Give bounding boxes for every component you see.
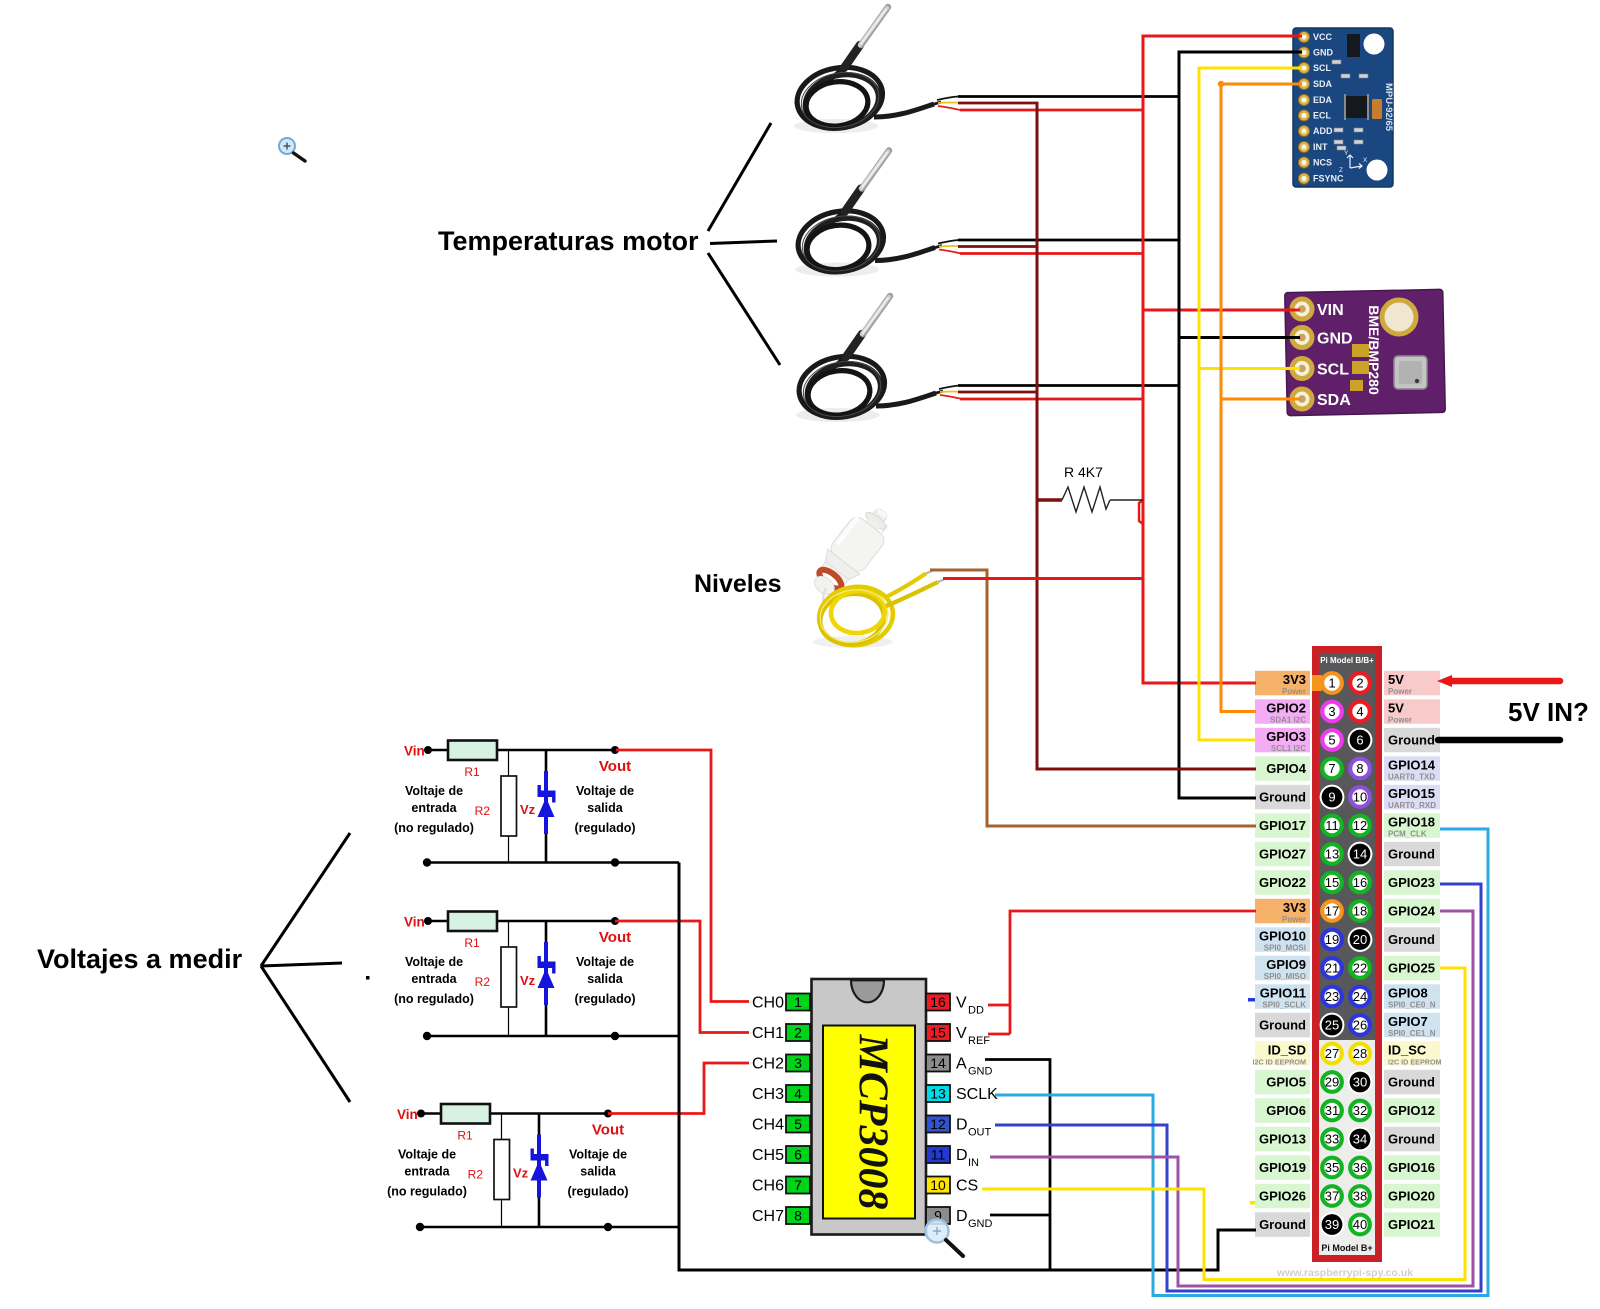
svg-text:Temperaturas motor: Temperaturas motor xyxy=(438,226,699,256)
svg-text:12: 12 xyxy=(1353,818,1367,833)
svg-text:GPIO9: GPIO9 xyxy=(1266,957,1306,972)
svg-text:GND: GND xyxy=(968,1066,993,1078)
svg-text:Voltaje de: Voltaje de xyxy=(569,1148,627,1162)
svg-text:R1: R1 xyxy=(457,1129,473,1143)
svg-text:(no regulado): (no regulado) xyxy=(394,992,474,1006)
svg-text:D: D xyxy=(956,1117,968,1134)
svg-text:salida: salida xyxy=(580,1165,616,1179)
svg-text:GPIO3: GPIO3 xyxy=(1266,729,1306,744)
svg-text:Vin: Vin xyxy=(397,1107,418,1122)
wire: brown float switch to GPIO17 xyxy=(930,570,1256,826)
svg-text:ID_SC: ID_SC xyxy=(1388,1043,1427,1058)
svg-text:Pi Model B/B+: Pi Model B/B+ xyxy=(1320,656,1374,665)
svg-text:D: D xyxy=(956,1208,968,1225)
svg-text:3V3: 3V3 xyxy=(1283,900,1306,915)
svg-text:GPIO27: GPIO27 xyxy=(1259,847,1306,862)
svg-text:R2: R2 xyxy=(475,975,491,989)
svg-text:CH6: CH6 xyxy=(752,1178,784,1195)
wire: black branch to BME GND xyxy=(1179,336,1300,339)
svg-text:CH4: CH4 xyxy=(752,1117,784,1134)
svg-text:1: 1 xyxy=(1328,676,1335,691)
svg-text:32: 32 xyxy=(1353,1103,1367,1118)
svg-text:SDA: SDA xyxy=(1313,79,1333,89)
wire: red 3V3 bus to MPU VCC and GPIO pin1 3V3 xyxy=(1143,36,1302,683)
svg-text:Ground: Ground xyxy=(1259,1217,1306,1232)
temperature probe TH1 (DS18B20) xyxy=(792,7,960,135)
svg-text:7: 7 xyxy=(794,1177,802,1193)
svg-text:Ground: Ground xyxy=(1388,932,1435,947)
svg-text:35: 35 xyxy=(1325,1160,1339,1175)
wire: probe1 data (dark red) xyxy=(958,102,1039,105)
svg-text:Ground: Ground xyxy=(1388,847,1435,862)
wire: Vout1 to MCP3008 CH0 xyxy=(616,750,749,1002)
sensor module U2 MPU-92/65 xyxy=(1293,28,1394,187)
svg-text:GPIO8: GPIO8 xyxy=(1388,986,1428,1001)
svg-text:GPIO23: GPIO23 xyxy=(1388,875,1435,890)
svg-text:2: 2 xyxy=(1356,676,1363,691)
svg-text:ECL: ECL xyxy=(1313,111,1332,121)
svg-text:salida: salida xyxy=(587,801,623,815)
svg-text:UART0_TXD: UART0_TXD xyxy=(1388,773,1435,782)
svg-text:8: 8 xyxy=(1356,761,1363,776)
svg-text:R2: R2 xyxy=(475,804,491,818)
wire: MCP3008 VDD/VREF to 3V3 (pin17) xyxy=(988,911,1256,1034)
Raspberry Pi GPIO header pinout (Pi Model B/B+) xyxy=(1252,646,1441,1279)
svg-text:3V3: 3V3 xyxy=(1283,672,1306,687)
svg-text:DD: DD xyxy=(968,1005,984,1017)
svg-text:13: 13 xyxy=(930,1086,946,1102)
voltage divider circuit 2 (Vin/R1/R2/Vz zener regulator) xyxy=(394,912,679,1041)
svg-text:(regulado): (regulado) xyxy=(567,1185,628,1199)
svg-text:REF: REF xyxy=(968,1035,990,1047)
wire: orange branch to BME SDA xyxy=(1221,398,1300,401)
svg-text:(regulado): (regulado) xyxy=(574,992,635,1006)
temperature probe TH2 (DS18B20) xyxy=(793,151,961,279)
svg-text:ID_SD: ID_SD xyxy=(1268,1043,1306,1058)
wire: red branch to BME VIN xyxy=(1143,309,1300,312)
svg-text:D: D xyxy=(956,1147,968,1164)
svg-text:GPIO25: GPIO25 xyxy=(1388,961,1435,976)
svg-text:39: 39 xyxy=(1325,1217,1339,1232)
svg-text:(no regulado): (no regulado) xyxy=(394,821,474,835)
svg-text:15: 15 xyxy=(930,1025,946,1041)
svg-text:4: 4 xyxy=(794,1086,802,1102)
svg-text:1: 1 xyxy=(794,994,802,1010)
svg-text:Ground: Ground xyxy=(1259,790,1306,805)
svg-text:29: 29 xyxy=(1325,1075,1339,1090)
svg-text:33: 33 xyxy=(1325,1132,1339,1147)
svg-text:(regulado): (regulado) xyxy=(574,821,635,835)
svg-text:X: X xyxy=(1363,157,1368,164)
svg-text:SPI0_CE0_N: SPI0_CE0_N xyxy=(1388,1001,1436,1010)
wire: supply ground return (thick black) xyxy=(1438,737,1560,744)
wire: 5V supply input (thick red) xyxy=(1448,678,1560,685)
svg-text:SCL: SCL xyxy=(1313,63,1332,73)
svg-text:5: 5 xyxy=(1328,733,1335,748)
svg-text:GPIO13: GPIO13 xyxy=(1259,1132,1306,1147)
svg-text:GPIO20: GPIO20 xyxy=(1388,1189,1435,1204)
svg-text:entrada: entrada xyxy=(411,801,457,815)
svg-text:Ground: Ground xyxy=(1259,1018,1306,1033)
zoom watermark icon (on MCP3008) xyxy=(926,1220,964,1257)
svg-text:CH3: CH3 xyxy=(752,1086,784,1103)
svg-text:Vz: Vz xyxy=(513,1166,529,1181)
svg-text:22: 22 xyxy=(1353,961,1367,976)
svg-text:Vz: Vz xyxy=(520,973,536,988)
svg-text:Vin: Vin xyxy=(404,915,425,930)
svg-text:Voltaje de: Voltaje de xyxy=(398,1148,456,1162)
pointer lines to probes xyxy=(708,123,771,231)
svg-text:5V: 5V xyxy=(1388,701,1404,716)
svg-text:salida: salida xyxy=(587,972,623,986)
svg-text:Vout: Vout xyxy=(599,929,631,946)
svg-text:GPIO2: GPIO2 xyxy=(1266,701,1306,716)
svg-text:Voltajes a medir: Voltajes a medir xyxy=(37,944,243,974)
svg-text:V: V xyxy=(956,995,967,1012)
svg-text:GPIO10: GPIO10 xyxy=(1259,929,1306,944)
svg-text:34: 34 xyxy=(1353,1132,1367,1147)
svg-text:Vout: Vout xyxy=(592,1122,624,1139)
svg-text:16: 16 xyxy=(1353,875,1367,890)
wire: MCP3008 DIN to GPIO24 (purple) xyxy=(990,911,1473,1286)
svg-text:www.raspberrypi-spy.co.uk: www.raspberrypi-spy.co.uk xyxy=(1276,1267,1413,1279)
wire: probe1 VCC (red) xyxy=(960,109,1145,112)
svg-text:CH7: CH7 xyxy=(752,1208,784,1225)
svg-text:Pi Model B+: Pi Model B+ xyxy=(1321,1243,1372,1253)
wire: MCP3008 AGND to ground rail xyxy=(985,1060,1050,1271)
wire: black GND bus to MPU GND and GPIO Ground (pin9 row) xyxy=(1179,52,1302,798)
svg-text:EDA: EDA xyxy=(1313,95,1333,105)
svg-text:3: 3 xyxy=(794,1055,802,1071)
svg-text:15: 15 xyxy=(1325,875,1339,890)
svg-text:GPIO24: GPIO24 xyxy=(1388,904,1436,919)
svg-text:36: 36 xyxy=(1353,1160,1367,1175)
svg-text:Voltaje de: Voltaje de xyxy=(576,784,634,798)
svg-text:R2: R2 xyxy=(468,1168,484,1182)
svg-text:VCC: VCC xyxy=(1313,32,1333,42)
ADC chip U1 MCP3008 xyxy=(752,979,998,1235)
wire: red float switch to 3V3 bus xyxy=(943,577,1145,580)
svg-text:GPIO26: GPIO26 xyxy=(1259,1189,1306,1204)
svg-text:GND: GND xyxy=(968,1218,993,1230)
wire: Vout3 to MCP3008 CH2 xyxy=(608,1063,749,1114)
svg-text:PCM_CLK: PCM_CLK xyxy=(1388,830,1427,839)
svg-text:GPIO16: GPIO16 xyxy=(1388,1160,1435,1175)
svg-text:25: 25 xyxy=(1325,1018,1339,1033)
svg-text:40: 40 xyxy=(1353,1217,1367,1232)
svg-text:R1: R1 xyxy=(464,936,480,950)
svg-text:17: 17 xyxy=(1325,904,1339,919)
svg-text:SPI0_CE1_N: SPI0_CE1_N xyxy=(1388,1029,1436,1038)
svg-text:MCP3008: MCP3008 xyxy=(849,1033,895,1209)
svg-text:13: 13 xyxy=(1325,847,1339,862)
svg-text:Power: Power xyxy=(1388,716,1412,725)
svg-text:SCL: SCL xyxy=(1317,362,1349,379)
svg-text:GPIO15: GPIO15 xyxy=(1388,786,1435,801)
wire: probe2 VCC (red) xyxy=(960,252,1145,255)
wire: probe2 GND (black) xyxy=(958,239,1181,242)
svg-text:Voltaje de: Voltaje de xyxy=(576,955,634,969)
svg-text:GPIO21: GPIO21 xyxy=(1388,1217,1435,1232)
svg-text:GND: GND xyxy=(1313,48,1334,58)
wire: common ground rail of divider circuits xyxy=(679,863,1256,1271)
svg-text:GPIO18: GPIO18 xyxy=(1388,815,1435,830)
svg-text:7: 7 xyxy=(1328,761,1335,776)
svg-text:16: 16 xyxy=(930,994,946,1010)
svg-text:Ground: Ground xyxy=(1388,733,1435,748)
svg-text:IN: IN xyxy=(968,1157,979,1169)
svg-text:Vin: Vin xyxy=(404,744,425,759)
svg-text:8: 8 xyxy=(794,1208,802,1224)
svg-text:SPI0_MISO: SPI0_MISO xyxy=(1264,972,1306,981)
svg-text:Z: Z xyxy=(1339,167,1343,174)
voltage divider circuit 3 (Vin/R1/R2/Vz zener regulator) xyxy=(387,1104,679,1231)
svg-text:5V IN?: 5V IN? xyxy=(1508,697,1589,727)
svg-text:CH1: CH1 xyxy=(752,1025,784,1042)
svg-text:9: 9 xyxy=(1328,790,1335,805)
svg-text:ADD: ADD xyxy=(1313,126,1333,136)
wire: probe1 GND (black) xyxy=(958,95,1181,98)
svg-text:GPIO11: GPIO11 xyxy=(1260,986,1306,1001)
svg-text:SCLK: SCLK xyxy=(956,1086,998,1103)
wire: red vertical jog artifact xyxy=(1139,500,1143,524)
svg-text:2: 2 xyxy=(794,1025,802,1041)
svg-text:V: V xyxy=(956,1025,967,1042)
svg-text:Voltaje de: Voltaje de xyxy=(405,955,463,969)
svg-text:GPIO19: GPIO19 xyxy=(1259,1160,1306,1175)
svg-text:5V: 5V xyxy=(1388,672,1404,687)
svg-text:28: 28 xyxy=(1353,1046,1367,1061)
wire: orange SDA bus to MPU SDA and GPIO2 SDA1 xyxy=(1221,84,1302,712)
svg-text:21: 21 xyxy=(1325,961,1339,976)
svg-text:GPIO12: GPIO12 xyxy=(1388,1103,1435,1118)
svg-text:11: 11 xyxy=(1325,818,1339,833)
svg-text:24: 24 xyxy=(1353,989,1367,1004)
svg-text:CH0: CH0 xyxy=(752,995,784,1012)
svg-text:26: 26 xyxy=(1353,1018,1367,1033)
svg-text:GPIO5: GPIO5 xyxy=(1266,1075,1306,1090)
svg-text:OUT: OUT xyxy=(968,1127,992,1139)
svg-text:GPIO7: GPIO7 xyxy=(1388,1014,1428,1029)
wire: MCP3008 DOUT to GPIO23 (blue) xyxy=(995,884,1481,1291)
wire: probe3 VCC (red) xyxy=(960,398,1145,401)
svg-text:CH2: CH2 xyxy=(752,1056,784,1073)
voltage divider circuit 1 (Vin/R1/R2/Vz zener regulator) xyxy=(394,741,679,867)
svg-text:I2C ID EEPROM: I2C ID EEPROM xyxy=(1252,1058,1306,1067)
wire: probe3 GND (black) xyxy=(958,384,1181,387)
svg-text:12: 12 xyxy=(930,1116,946,1132)
svg-text:6: 6 xyxy=(794,1147,802,1163)
svg-text:Power: Power xyxy=(1282,687,1306,696)
pointer lines to divider circuits xyxy=(261,833,350,966)
svg-text:BME/BMP280: BME/BMP280 xyxy=(1366,305,1382,395)
svg-text:entrada: entrada xyxy=(404,1165,450,1179)
svg-text:CS: CS xyxy=(956,1178,978,1195)
svg-text:Ground: Ground xyxy=(1388,1132,1435,1147)
svg-text:Y: Y xyxy=(1344,150,1349,157)
svg-text:SDA: SDA xyxy=(1317,392,1351,409)
svg-text:37: 37 xyxy=(1325,1189,1339,1204)
svg-text:GND: GND xyxy=(1317,331,1353,348)
svg-text:GPIO22: GPIO22 xyxy=(1259,875,1306,890)
svg-text:NCS: NCS xyxy=(1313,158,1332,168)
sensor module U3 BME/BMP280 xyxy=(1285,289,1446,415)
svg-text:INT: INT xyxy=(1313,142,1328,152)
svg-text:SPI0_MOSI: SPI0_MOSI xyxy=(1264,944,1306,953)
resistor R 4K7 (1-wire pull-up) xyxy=(1037,464,1143,512)
svg-text:CH5: CH5 xyxy=(752,1147,784,1164)
wire: yellow branch to BME SCL xyxy=(1199,367,1300,370)
svg-text:10: 10 xyxy=(930,1177,946,1193)
svg-text:6: 6 xyxy=(1356,733,1363,748)
svg-text:30: 30 xyxy=(1353,1075,1367,1090)
svg-text:20: 20 xyxy=(1353,932,1367,947)
svg-text:18: 18 xyxy=(1353,904,1367,919)
svg-text:Power: Power xyxy=(1282,915,1306,924)
svg-text:A: A xyxy=(956,1056,967,1073)
svg-text:SDA1 I2C: SDA1 I2C xyxy=(1270,716,1306,725)
svg-text:27: 27 xyxy=(1325,1046,1339,1061)
svg-text:SCL1 I2C: SCL1 I2C xyxy=(1271,744,1306,753)
svg-text:14: 14 xyxy=(930,1055,946,1071)
svg-text:Voltaje de: Voltaje de xyxy=(405,784,463,798)
wire: probe3 data (dark red) xyxy=(958,391,1039,394)
svg-text:GPIO6: GPIO6 xyxy=(1266,1103,1306,1118)
svg-text:GPIO4: GPIO4 xyxy=(1266,761,1307,776)
svg-text:Ground: Ground xyxy=(1388,1075,1435,1090)
svg-text:10: 10 xyxy=(1353,790,1367,805)
svg-text:Niveles: Niveles xyxy=(694,570,782,598)
svg-text:GPIO14: GPIO14 xyxy=(1388,758,1436,773)
zoom cursor icon (top left) xyxy=(279,138,305,161)
wire: MCP3008 SCLK to GPIO18 (light blue) xyxy=(995,829,1488,1296)
svg-text:11: 11 xyxy=(931,1147,946,1163)
svg-text:Vout: Vout xyxy=(599,758,631,775)
svg-text:Power: Power xyxy=(1388,687,1412,696)
wire: yellow SCL bus to MPU SCL and GPIO3 SCL1 xyxy=(1199,68,1302,740)
svg-text:MPU-92/65: MPU-92/65 xyxy=(1383,83,1394,132)
svg-text:5: 5 xyxy=(794,1116,802,1132)
svg-text:UART0_RXD: UART0_RXD xyxy=(1388,801,1436,810)
wire: probe2 data (dark red) xyxy=(958,245,1039,248)
svg-text:I2C ID EEPROM: I2C ID EEPROM xyxy=(1388,1058,1442,1067)
svg-text:SPI0_SCLK: SPI0_SCLK xyxy=(1262,1001,1306,1010)
wire: Vout2 to MCP3008 CH1 xyxy=(615,921,749,1033)
svg-text:3: 3 xyxy=(1328,704,1335,719)
svg-text:23: 23 xyxy=(1325,989,1339,1004)
svg-text:19: 19 xyxy=(1325,932,1339,947)
float level switch (Niveles sensor) xyxy=(804,498,944,649)
svg-text:14: 14 xyxy=(1353,847,1367,862)
svg-text:VIN: VIN xyxy=(1317,302,1344,319)
wire: MCP3008 DGND to ground rail xyxy=(990,1214,1050,1217)
wire: MCP3008 CS to GPIO25 (yellow) xyxy=(982,968,1465,1280)
svg-text:4: 4 xyxy=(1356,704,1363,719)
svg-text:(no regulado): (no regulado) xyxy=(387,1185,467,1199)
temperature probe TH3 (DS18B20) xyxy=(794,296,962,424)
svg-text:R1: R1 xyxy=(464,765,480,779)
svg-text:31: 31 xyxy=(1325,1103,1339,1118)
svg-text:R 4K7: R 4K7 xyxy=(1064,464,1103,480)
svg-text:entrada: entrada xyxy=(411,972,457,986)
svg-text:Vz: Vz xyxy=(520,802,536,817)
wire: dark red 1-wire data bus to GPIO4 xyxy=(1037,103,1256,769)
svg-text:38: 38 xyxy=(1353,1189,1367,1204)
svg-text:FSYNC: FSYNC xyxy=(1313,174,1344,184)
svg-text:GPIO17: GPIO17 xyxy=(1259,818,1306,833)
